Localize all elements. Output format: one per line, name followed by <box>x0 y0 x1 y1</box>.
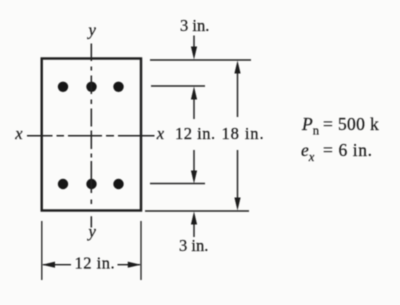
svg-text:x: x <box>14 124 23 143</box>
svg-text:y: y <box>87 21 97 40</box>
svg-text:x: x <box>156 124 165 143</box>
svg-text:18 in.: 18 in. <box>222 124 265 143</box>
svg-text:12 in.: 12 in. <box>75 254 116 273</box>
svg-text:3 in.: 3 in. <box>180 16 209 35</box>
svg-text:y: y <box>87 222 97 241</box>
svg-text:12 in.: 12 in. <box>175 124 216 143</box>
svg-text:3 in.: 3 in. <box>179 236 208 255</box>
